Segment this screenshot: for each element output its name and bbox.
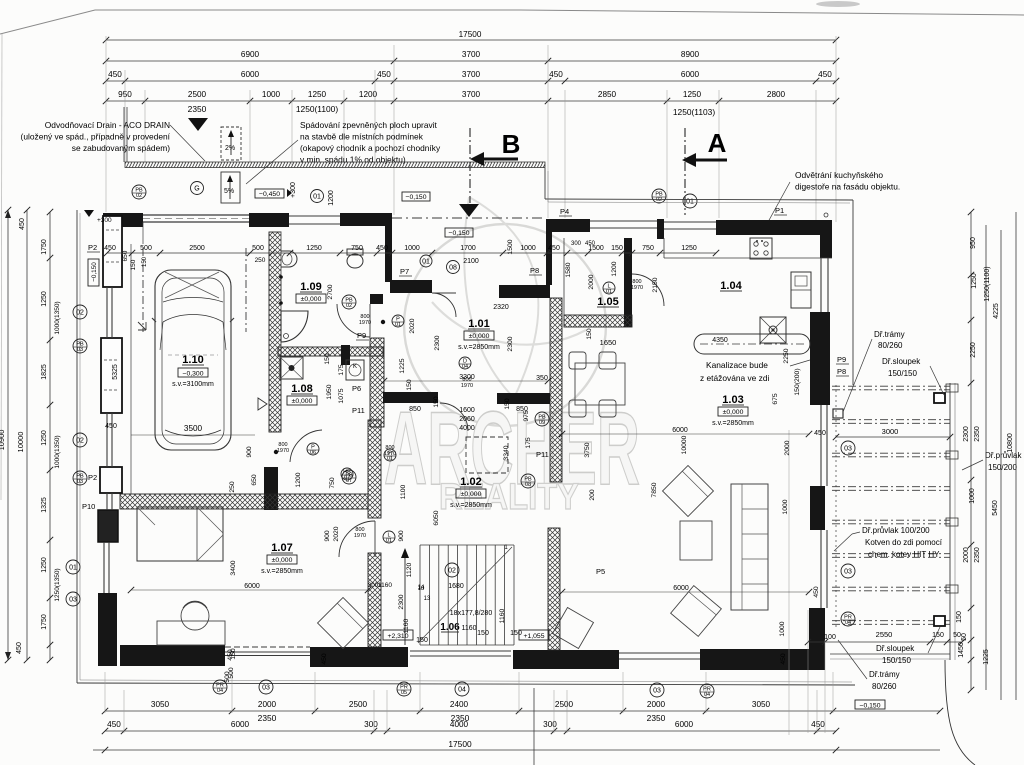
svg-text:1250: 1250: [306, 245, 322, 252]
svg-text:6050: 6050: [433, 510, 440, 525]
svg-text:450: 450: [780, 653, 787, 665]
svg-text:6000: 6000: [244, 583, 260, 590]
svg-text:150: 150: [477, 630, 489, 637]
svg-text:P11: P11: [352, 406, 365, 415]
svg-text:175: 175: [338, 364, 345, 376]
svg-text:01: 01: [606, 289, 612, 295]
svg-text:450: 450: [813, 586, 820, 598]
svg-text:P11: P11: [536, 450, 549, 459]
svg-text:±0,000: ±0,000: [723, 409, 744, 416]
svg-text:1000: 1000: [779, 621, 786, 636]
svg-text:14: 14: [418, 585, 425, 591]
svg-text:P8: P8: [837, 367, 846, 376]
svg-text:2300: 2300: [434, 335, 441, 350]
svg-text:G: G: [194, 186, 199, 193]
svg-text:1225: 1225: [399, 358, 406, 373]
svg-text:750: 750: [642, 245, 654, 252]
svg-text:2500: 2500: [555, 700, 574, 709]
svg-text:2300: 2300: [398, 594, 405, 609]
svg-text:04: 04: [462, 364, 468, 370]
svg-text:6000: 6000: [672, 427, 688, 434]
svg-text:1650: 1650: [600, 338, 617, 347]
svg-text:250: 250: [255, 257, 266, 264]
svg-text:500: 500: [252, 245, 264, 252]
svg-text:Spádování zpevněných ploch upr: Spádování zpevněných ploch upravit: [300, 120, 438, 130]
svg-text:200: 200: [589, 489, 596, 501]
svg-text:2350: 2350: [647, 713, 666, 723]
svg-text:2000: 2000: [647, 700, 666, 709]
svg-text:2250: 2250: [783, 348, 790, 363]
svg-text:650: 650: [251, 474, 258, 486]
svg-text:150/200: 150/200: [988, 463, 1017, 472]
svg-text:P6: P6: [352, 384, 361, 393]
svg-text:03: 03: [262, 685, 270, 692]
svg-text:Dř.průvlak 100/200: Dř.průvlak 100/200: [862, 526, 930, 535]
svg-text:08: 08: [525, 482, 531, 488]
svg-text:1700: 1700: [460, 245, 476, 252]
svg-text:6000: 6000: [675, 720, 694, 729]
svg-text:±0,000: ±0,000: [469, 333, 490, 340]
svg-text:1250(1103): 1250(1103): [673, 107, 715, 117]
svg-text:±0,000: ±0,000: [461, 491, 482, 498]
svg-text:150: 150: [510, 630, 522, 637]
svg-text:3700: 3700: [462, 70, 481, 79]
svg-text:17500: 17500: [459, 30, 482, 39]
svg-text:150: 150: [142, 256, 148, 267]
svg-text:1970: 1970: [354, 533, 366, 539]
svg-text:1970: 1970: [359, 320, 371, 326]
svg-text:10000: 10000: [681, 435, 688, 454]
svg-text:900: 900: [324, 530, 331, 542]
svg-text:−0,300: −0,300: [183, 370, 204, 377]
svg-text:A: A: [708, 128, 727, 158]
svg-text:150: 150: [932, 632, 944, 639]
svg-text:05: 05: [401, 690, 407, 696]
svg-text:1000: 1000: [520, 245, 536, 252]
svg-text:300: 300: [571, 241, 582, 247]
svg-text:1.10: 1.10: [182, 354, 203, 366]
svg-text:1200: 1200: [611, 261, 618, 276]
svg-text:K: K: [353, 364, 357, 370]
svg-text:250: 250: [229, 481, 236, 493]
svg-text:02: 02: [76, 438, 84, 445]
svg-text:450: 450: [107, 720, 121, 729]
svg-text:2800: 2800: [767, 90, 786, 99]
svg-text:s.v.=2850mm: s.v.=2850mm: [261, 568, 303, 575]
svg-text:P2: P2: [88, 473, 97, 482]
svg-text:1250: 1250: [308, 90, 327, 99]
svg-text:2500: 2500: [189, 245, 205, 252]
svg-text:3700: 3700: [462, 50, 481, 59]
svg-text:s.v.=2850mm: s.v.=2850mm: [458, 344, 500, 351]
svg-text:10800: 10800: [1007, 433, 1014, 453]
svg-text:850: 850: [409, 406, 421, 413]
svg-text:1250: 1250: [41, 430, 48, 446]
svg-text:2400: 2400: [450, 700, 469, 709]
svg-text:2000: 2000: [588, 274, 595, 289]
svg-text:4350: 4350: [712, 337, 728, 344]
svg-text:6000: 6000: [231, 720, 250, 729]
svg-text:P7: P7: [400, 267, 409, 276]
svg-text:2500: 2500: [349, 700, 368, 709]
svg-text:3500: 3500: [184, 424, 203, 433]
svg-text:1.08: 1.08: [291, 383, 312, 395]
svg-text:06: 06: [310, 450, 316, 456]
svg-text:P8: P8: [530, 266, 539, 275]
svg-text:150: 150: [611, 245, 623, 252]
svg-text:1750: 1750: [41, 239, 48, 255]
svg-text:1200: 1200: [295, 472, 302, 487]
svg-text:4000: 4000: [459, 425, 475, 432]
svg-text:P9: P9: [357, 331, 366, 340]
svg-text:150: 150: [324, 353, 331, 365]
svg-text:750: 750: [329, 477, 336, 489]
svg-text:2700: 2700: [327, 284, 334, 299]
svg-text:1000: 1000: [969, 488, 976, 504]
svg-text:1750: 1750: [41, 614, 48, 630]
svg-text:1075: 1075: [338, 388, 345, 403]
svg-text:Dř.sloupek: Dř.sloupek: [882, 357, 921, 366]
svg-text:03: 03: [77, 479, 83, 485]
svg-text:+1,055: +1,055: [524, 633, 545, 640]
svg-text:s.v.=2850mm: s.v.=2850mm: [450, 502, 492, 509]
svg-text:10000: 10000: [16, 432, 25, 453]
svg-text:(uložený ve spád., případně v: (uložený ve spád., případně v provedení: [21, 132, 171, 142]
svg-text:150: 150: [586, 328, 593, 340]
svg-text:6000: 6000: [681, 70, 700, 79]
svg-text:1000: 1000: [262, 90, 281, 99]
svg-text:1160: 1160: [461, 625, 476, 632]
svg-text:02: 02: [448, 568, 456, 575]
svg-text:1325: 1325: [41, 497, 48, 513]
svg-text:3050: 3050: [151, 700, 170, 709]
svg-text:P4: P4: [560, 207, 569, 216]
svg-text:01: 01: [422, 259, 430, 266]
svg-text:2000: 2000: [963, 547, 970, 563]
svg-text:450: 450: [376, 245, 388, 252]
svg-text:1450: 1450: [958, 642, 965, 658]
svg-text:450: 450: [16, 642, 23, 654]
svg-text:1250: 1250: [971, 273, 978, 289]
svg-text:−0,150: −0,150: [91, 262, 98, 282]
svg-text:1.01: 1.01: [468, 318, 489, 330]
svg-text:Odvětrání kuchyňského: Odvětrání kuchyňského: [795, 170, 883, 180]
svg-text:1.07: 1.07: [271, 542, 292, 554]
svg-text:01: 01: [387, 456, 393, 462]
svg-text:03: 03: [69, 597, 77, 604]
svg-text:1200: 1200: [328, 190, 335, 206]
svg-text:s.v.=3100mm: s.v.=3100mm: [172, 381, 214, 388]
svg-text:5450: 5450: [992, 500, 999, 516]
svg-text:4000: 4000: [450, 720, 469, 729]
svg-text:3050: 3050: [752, 700, 771, 709]
svg-text:450: 450: [19, 218, 26, 230]
svg-text:02: 02: [346, 303, 352, 309]
svg-text:3700: 3700: [462, 90, 481, 99]
svg-text:digestoře na fasádu objektu.: digestoře na fasádu objektu.: [795, 182, 900, 192]
svg-text:1970: 1970: [631, 285, 643, 291]
svg-text:6900: 6900: [241, 50, 260, 59]
svg-text:1500: 1500: [507, 239, 514, 254]
svg-text:2150: 2150: [652, 277, 659, 292]
svg-text:Dř.sloupek: Dř.sloupek: [876, 644, 915, 653]
svg-text:80/260: 80/260: [872, 682, 897, 691]
svg-text:2020: 2020: [333, 526, 340, 541]
svg-text:s.v.=2850mm: s.v.=2850mm: [712, 420, 754, 427]
svg-text:2250: 2250: [970, 342, 977, 358]
svg-text:1.02: 1.02: [460, 476, 481, 488]
svg-text:1160: 1160: [378, 582, 392, 589]
svg-text:01: 01: [313, 194, 321, 201]
svg-text:04: 04: [458, 687, 466, 694]
svg-text:150: 150: [130, 259, 137, 270]
svg-text:17500: 17500: [448, 739, 472, 749]
svg-text:−0,150: −0,150: [449, 230, 470, 237]
svg-text:650: 650: [122, 250, 129, 261]
svg-text:se zabudovaným spádem): se zabudovaným spádem): [72, 143, 170, 153]
svg-text:1970: 1970: [461, 383, 473, 389]
svg-text:04: 04: [217, 688, 223, 694]
svg-text:2%: 2%: [225, 145, 235, 152]
svg-text:+300: +300: [290, 182, 297, 198]
svg-text:50: 50: [961, 633, 968, 641]
svg-text:Dř.trámy: Dř.trámy: [869, 670, 900, 679]
svg-text:1250(1350): 1250(1350): [54, 568, 61, 601]
svg-text:Kanalizace bude: Kanalizace bude: [706, 360, 768, 370]
svg-text:z etážována ve zdi: z etážována ve zdi: [700, 373, 770, 383]
svg-text:1250(1100): 1250(1100): [296, 104, 338, 114]
svg-text:1680: 1680: [448, 583, 464, 590]
svg-text:13: 13: [424, 596, 431, 602]
svg-text:±0,000: ±0,000: [301, 296, 322, 303]
svg-text:2350: 2350: [258, 713, 277, 723]
svg-text:1950: 1950: [326, 384, 333, 399]
svg-text:150(200): 150(200): [794, 368, 801, 395]
svg-text:1.09: 1.09: [300, 281, 321, 293]
svg-text:04: 04: [704, 692, 710, 698]
svg-text:300: 300: [364, 720, 378, 729]
svg-text:2300: 2300: [507, 336, 514, 351]
svg-text:2020: 2020: [409, 318, 416, 333]
svg-text:450: 450: [814, 430, 826, 437]
svg-text:500: 500: [140, 245, 152, 252]
svg-text:2300: 2300: [963, 426, 970, 442]
svg-text:1250: 1250: [681, 245, 697, 252]
svg-text:175: 175: [525, 437, 532, 449]
svg-text:150/150: 150/150: [888, 369, 917, 378]
svg-text:300: 300: [543, 720, 557, 729]
svg-text:18x177,8/280: 18x177,8/280: [450, 610, 493, 617]
svg-text:5%: 5%: [224, 188, 234, 195]
svg-text:01: 01: [395, 322, 401, 328]
svg-text:2350: 2350: [974, 547, 981, 563]
svg-text:(okapový chodník a pochozí cho: (okapový chodník a pochozí chodníky: [300, 143, 441, 153]
svg-text:500: 500: [228, 667, 235, 679]
svg-text:450: 450: [585, 241, 596, 247]
svg-text:150: 150: [416, 637, 428, 644]
svg-text:±0,000: ±0,000: [272, 557, 293, 564]
svg-text:900: 900: [398, 530, 405, 542]
svg-text:2100: 2100: [463, 258, 479, 265]
svg-text:3340: 3340: [503, 445, 510, 460]
svg-text:1100: 1100: [400, 484, 407, 499]
svg-text:150: 150: [504, 398, 511, 410]
svg-text:B: B: [502, 129, 521, 159]
svg-text:1160: 1160: [403, 618, 410, 633]
svg-text:3400: 3400: [230, 560, 237, 575]
svg-text:1120: 1120: [406, 562, 413, 577]
svg-text:03: 03: [844, 569, 852, 576]
svg-text:80/260: 80/260: [878, 341, 903, 350]
svg-text:450: 450: [377, 70, 391, 79]
svg-text:1225: 1225: [983, 649, 990, 665]
svg-text:04: 04: [845, 620, 851, 626]
svg-text:−0,450: −0,450: [259, 191, 280, 198]
svg-text:6000: 6000: [241, 70, 260, 79]
svg-text:450: 450: [227, 649, 234, 661]
svg-text:2500: 2500: [188, 90, 207, 99]
svg-text:01: 01: [69, 565, 77, 572]
svg-text:±0,000: ±0,000: [292, 398, 313, 405]
svg-text:100: 100: [824, 634, 836, 641]
svg-text:450: 450: [818, 70, 832, 79]
svg-text:150: 150: [433, 396, 440, 408]
svg-text:2320: 2320: [493, 304, 509, 311]
svg-text:1250: 1250: [683, 90, 702, 99]
svg-text:P10: P10: [82, 502, 95, 511]
svg-text:900: 900: [246, 446, 253, 458]
svg-text:750: 750: [351, 245, 363, 252]
svg-text:1250(1100): 1250(1100): [984, 266, 991, 301]
svg-text:6000: 6000: [673, 585, 689, 592]
svg-text:−0,150: −0,150: [406, 194, 427, 201]
svg-text:2000: 2000: [784, 440, 791, 455]
svg-text:+300: +300: [97, 217, 112, 224]
svg-text:450: 450: [105, 423, 117, 430]
svg-text:1250: 1250: [41, 291, 48, 307]
svg-text:chem. kotev HIT HY: chem. kotev HIT HY: [868, 550, 940, 559]
svg-text:Dř.trámy: Dř.trámy: [874, 330, 905, 339]
svg-text:1970: 1970: [277, 448, 289, 454]
svg-text:2550: 2550: [876, 630, 893, 639]
svg-text:2350: 2350: [974, 426, 981, 442]
svg-text:07: 07: [344, 475, 350, 481]
svg-text:Dř.průvlak: Dř.průvlak: [985, 451, 1022, 460]
svg-text:10900: 10900: [0, 430, 6, 451]
svg-text:1160: 1160: [499, 608, 506, 623]
svg-text:2350: 2350: [188, 104, 207, 114]
svg-text:1580: 1580: [565, 262, 572, 277]
svg-text:01: 01: [386, 538, 392, 544]
svg-text:na stavbě dle místních podmíne: na stavbě dle místních podmínek: [300, 132, 424, 142]
svg-text:450: 450: [104, 245, 116, 252]
svg-text:02: 02: [76, 310, 84, 317]
svg-text:02: 02: [136, 193, 142, 199]
svg-text:Odvodňovací Drain - ACO DRAIN: Odvodňovací Drain - ACO DRAIN: [45, 120, 170, 130]
svg-text:150/150: 150/150: [882, 656, 911, 665]
svg-text:1.06: 1.06: [440, 622, 460, 633]
svg-text:2060: 2060: [459, 416, 475, 423]
svg-text:09: 09: [539, 420, 545, 426]
svg-text:7850: 7850: [651, 482, 658, 497]
svg-text:1000(1350): 1000(1350): [54, 301, 61, 334]
svg-text:450: 450: [549, 70, 563, 79]
svg-text:450: 450: [108, 70, 122, 79]
svg-text:150: 150: [956, 611, 963, 623]
svg-text:850: 850: [516, 406, 528, 413]
svg-text:3000: 3000: [882, 427, 899, 436]
svg-text:950: 950: [970, 237, 977, 249]
svg-text:675: 675: [772, 393, 779, 405]
svg-text:1000: 1000: [404, 245, 420, 252]
svg-text:450: 450: [811, 720, 825, 729]
svg-text:P5: P5: [596, 567, 605, 576]
svg-text:1.04: 1.04: [720, 280, 742, 292]
svg-text:1600: 1600: [459, 407, 475, 414]
svg-text:450: 450: [548, 245, 560, 252]
svg-text:P9: P9: [837, 355, 846, 364]
svg-text:3750: 3750: [584, 442, 591, 457]
svg-text:50: 50: [953, 632, 961, 639]
svg-text:1.03: 1.03: [722, 394, 743, 406]
svg-text:−0,150: −0,150: [860, 702, 881, 709]
svg-text:1825: 1825: [41, 364, 48, 380]
svg-text:5325: 5325: [112, 364, 119, 380]
svg-text:P2: P2: [88, 243, 97, 252]
svg-text:1000(1350): 1000(1350): [54, 435, 61, 468]
svg-text:08: 08: [449, 265, 457, 272]
svg-text:03: 03: [653, 688, 661, 695]
svg-text:03: 03: [77, 347, 83, 353]
svg-text:4225: 4225: [993, 303, 1000, 319]
svg-text:8900: 8900: [681, 50, 700, 59]
svg-text:1000: 1000: [782, 499, 789, 514]
svg-text:1250: 1250: [41, 557, 48, 573]
svg-text:2000: 2000: [258, 700, 277, 709]
svg-text:Kotven do zdi pomocí: Kotven do zdi pomocí: [865, 538, 943, 547]
svg-text:02: 02: [656, 197, 662, 203]
svg-text:1.05: 1.05: [597, 296, 618, 308]
svg-text:2850: 2850: [598, 90, 617, 99]
svg-text:P1: P1: [775, 206, 784, 215]
svg-text:03: 03: [844, 446, 852, 453]
svg-text:450: 450: [321, 653, 328, 665]
